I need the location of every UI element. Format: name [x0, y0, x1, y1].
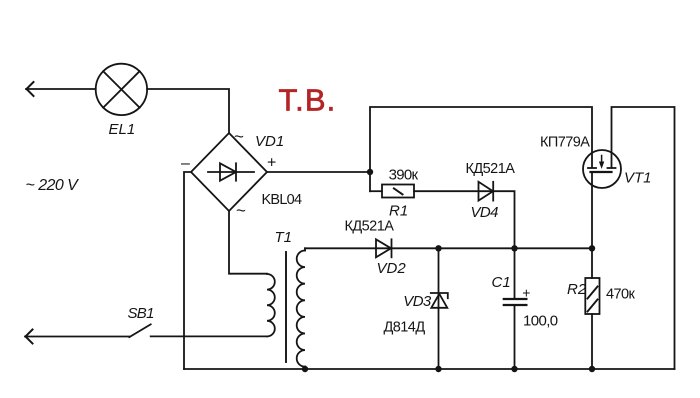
svg-text:Т1: Т1 — [275, 229, 293, 246]
wire VD2 to gate junction top rail — [392, 247, 593, 249]
svg-text:Т.В.: Т.В. — [279, 83, 337, 118]
node junction C1 top — [511, 245, 517, 251]
wire gate lead down to rail — [591, 172, 593, 248]
svg-text:SB1: SB1 — [128, 305, 155, 322]
node junction VD3 top — [435, 245, 441, 251]
svg-text:~: ~ — [236, 201, 246, 220]
node junction VD3 bottom — [435, 366, 441, 372]
diode VD4 — [479, 182, 494, 201]
transistor VT1 — [583, 150, 621, 188]
svg-text:VD2: VD2 — [377, 260, 407, 277]
svg-text:~ 220 V: ~ 220 V — [26, 177, 80, 194]
capacitor C1 — [504, 248, 527, 369]
wire bridge bottom to primary top — [229, 211, 267, 274]
svg-text:~: ~ — [234, 127, 244, 146]
wire mains top lead with arrow — [26, 82, 96, 96]
switch SB1 — [129, 324, 150, 337]
wire primary bottom to switch — [151, 335, 267, 337]
svg-text:R1: R1 — [389, 203, 408, 220]
wire junction up, top rail, transistor left lead — [370, 107, 592, 191]
wire junction to R1 — [370, 190, 382, 192]
node junction secondary bottom — [302, 366, 308, 372]
node junction C1 bottom — [511, 366, 517, 372]
bridge rectifier VD1 — [191, 133, 267, 211]
svg-text:R2: R2 — [567, 281, 587, 298]
svg-text:C1: C1 — [492, 274, 511, 291]
svg-text:390к: 390к — [389, 167, 419, 184]
wire secondary top to VD2 — [305, 247, 391, 249]
wire transistor right lead, top right, right rail — [612, 107, 675, 369]
transformer T1 secondary winding — [297, 251, 305, 367]
svg-text:КД521А: КД521А — [345, 219, 395, 235]
svg-text:–: – — [181, 155, 190, 172]
node junction R2 bottom — [589, 366, 595, 372]
diode VD2 — [376, 239, 392, 257]
wire bottom rail — [184, 368, 675, 370]
wire bridge minus to left frame down — [184, 172, 191, 369]
wire VD3 top lead — [438, 248, 440, 307]
zener diode VD3 — [431, 293, 448, 308]
node junction bridge plus — [367, 169, 373, 175]
svg-text:+: + — [522, 284, 530, 300]
node junction R2 gate top — [589, 245, 595, 251]
svg-text:VD1: VD1 — [255, 133, 284, 150]
resistor R2 — [585, 248, 599, 369]
svg-text:100,0: 100,0 — [523, 313, 558, 330]
wire secondary leads — [304, 248, 306, 369]
svg-text:VD3: VD3 — [403, 293, 432, 310]
svg-text:Д814Д: Д814Д — [384, 320, 426, 336]
wire switch to mains bottom lead with arrow — [25, 330, 129, 344]
wire VD3 bottom lead — [438, 308, 440, 369]
svg-text:EL1: EL1 — [109, 121, 136, 138]
svg-text:470к: 470к — [606, 287, 636, 303]
svg-text:+: + — [267, 155, 276, 172]
svg-text:VT1: VT1 — [624, 170, 652, 187]
transformer T1 primary winding — [267, 274, 275, 336]
wire lamp to bridge top corner — [147, 89, 229, 133]
svg-text:КД521А: КД521А — [466, 161, 516, 177]
svg-text:KBL04: KBL04 — [262, 192, 302, 208]
wire R1 to VD4 — [414, 190, 493, 192]
svg-text:VD4: VD4 — [471, 204, 499, 221]
wire bridge plus to junction — [267, 171, 370, 173]
transformer T1 core — [285, 252, 287, 362]
lamp EL1 — [96, 64, 147, 115]
resistor R1 — [382, 185, 414, 198]
wire VD4 to top rail at C1 junction — [493, 191, 514, 248]
svg-text:КП779А: КП779А — [540, 135, 590, 151]
